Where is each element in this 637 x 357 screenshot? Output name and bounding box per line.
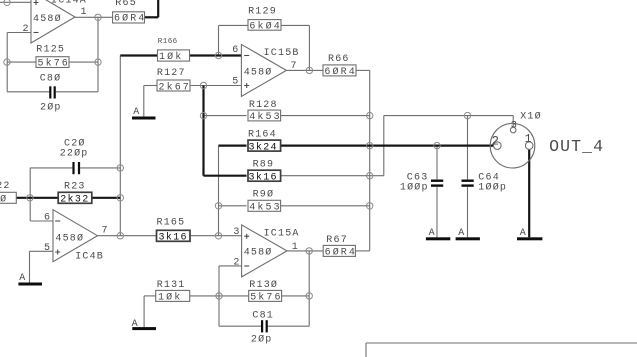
svg-text:2Øp: 2Øp bbox=[251, 334, 273, 346]
svg-text:1: 1 bbox=[292, 242, 299, 253]
svg-text:Ø: Ø bbox=[0, 193, 8, 205]
svg-text:R127: R127 bbox=[157, 68, 186, 79]
svg-text:2: 2 bbox=[23, 24, 30, 35]
svg-text:IC15A: IC15A bbox=[264, 229, 300, 240]
svg-text:R165: R165 bbox=[157, 218, 186, 229]
svg-text:R65: R65 bbox=[115, 0, 137, 9]
svg-text:R166: R166 bbox=[158, 38, 178, 46]
svg-text:2: 2 bbox=[233, 257, 240, 268]
svg-text:5k76: 5k76 bbox=[38, 57, 70, 69]
svg-text:458Ø: 458Ø bbox=[244, 66, 273, 78]
svg-text:R125: R125 bbox=[36, 44, 65, 55]
svg-text:R13Ø: R13Ø bbox=[249, 279, 278, 291]
svg-text:R129: R129 bbox=[248, 6, 277, 17]
svg-text:7: 7 bbox=[102, 225, 109, 236]
svg-text:1: 1 bbox=[81, 7, 88, 18]
svg-text:A: A bbox=[520, 228, 527, 239]
svg-text:X1Ø: X1Ø bbox=[520, 111, 542, 123]
svg-text:6ØR4: 6ØR4 bbox=[325, 246, 357, 258]
svg-text:R89: R89 bbox=[253, 159, 275, 170]
svg-text:5k76: 5k76 bbox=[250, 291, 282, 303]
svg-text:1: 1 bbox=[525, 133, 532, 146]
svg-text:4k53: 4k53 bbox=[249, 201, 281, 213]
svg-text:A: A bbox=[133, 107, 140, 118]
svg-text:3k16: 3k16 bbox=[159, 231, 188, 243]
svg-text:2k32: 2k32 bbox=[60, 193, 89, 205]
svg-text:6: 6 bbox=[44, 212, 51, 223]
svg-text:R66: R66 bbox=[328, 54, 350, 65]
svg-text:3k24: 3k24 bbox=[249, 141, 278, 153]
svg-text:2: 2 bbox=[492, 134, 500, 148]
svg-text:6kØ4: 6kØ4 bbox=[249, 21, 281, 33]
svg-text:OUT_4: OUT_4 bbox=[549, 137, 604, 156]
svg-text:R128: R128 bbox=[249, 100, 278, 111]
svg-text:5: 5 bbox=[44, 243, 51, 254]
svg-text:IC15B: IC15B bbox=[264, 48, 300, 59]
svg-text:R9Ø: R9Ø bbox=[253, 188, 275, 200]
svg-text:1Øk: 1Øk bbox=[159, 51, 183, 63]
svg-text:R131: R131 bbox=[157, 280, 186, 291]
svg-text:4k53: 4k53 bbox=[249, 111, 281, 123]
svg-text:A: A bbox=[132, 319, 139, 330]
svg-text:6ØR4: 6ØR4 bbox=[324, 66, 356, 78]
svg-text:458Ø: 458Ø bbox=[244, 246, 273, 258]
svg-text:7: 7 bbox=[291, 61, 298, 72]
svg-text:458Ø: 458Ø bbox=[33, 13, 62, 25]
svg-text:IC4B: IC4B bbox=[75, 252, 104, 263]
svg-text:A: A bbox=[429, 228, 436, 239]
svg-text:1Øk: 1Øk bbox=[158, 291, 182, 303]
svg-text:2Øp: 2Øp bbox=[40, 102, 62, 114]
svg-text:6: 6 bbox=[232, 45, 239, 56]
svg-text:5: 5 bbox=[232, 76, 239, 87]
svg-text:IC14A: IC14A bbox=[51, 0, 87, 7]
svg-text:2k67: 2k67 bbox=[159, 81, 191, 93]
svg-text:3: 3 bbox=[233, 227, 240, 238]
svg-text:6ØR4: 6ØR4 bbox=[114, 13, 146, 25]
svg-text:22: 22 bbox=[0, 181, 11, 192]
svg-text:R23: R23 bbox=[64, 181, 86, 192]
svg-text:1ØØp: 1ØØp bbox=[478, 181, 507, 193]
svg-text:A: A bbox=[458, 228, 465, 239]
svg-text:R164: R164 bbox=[248, 129, 277, 140]
svg-text:22Øp: 22Øp bbox=[60, 148, 89, 160]
svg-text:3k16: 3k16 bbox=[249, 171, 278, 183]
svg-text:R67: R67 bbox=[326, 235, 348, 246]
svg-text:458Ø: 458Ø bbox=[55, 233, 84, 245]
svg-text:1ØØp: 1ØØp bbox=[400, 181, 429, 193]
svg-text:A: A bbox=[19, 273, 26, 284]
svg-text:C81: C81 bbox=[252, 311, 274, 322]
svg-text:3: 3 bbox=[511, 119, 517, 131]
svg-text:C8Ø: C8Ø bbox=[40, 72, 62, 84]
